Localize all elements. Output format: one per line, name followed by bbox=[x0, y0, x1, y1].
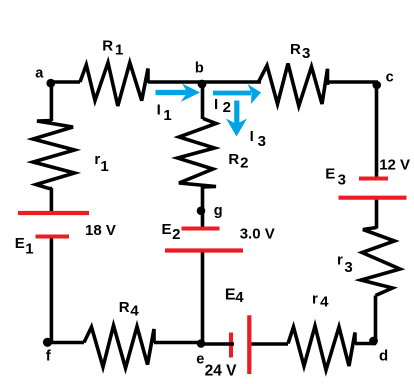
label g bbox=[214, 203, 223, 219]
svg-text:3.0 V: 3.0 V bbox=[240, 226, 275, 243]
svg-text:1: 1 bbox=[115, 42, 123, 59]
svg-text:3: 3 bbox=[338, 172, 346, 189]
wire R1 to b bbox=[148, 80, 204, 84]
label 24 V bbox=[205, 363, 238, 380]
wire b to R2 bbox=[201, 84, 205, 119]
svg-text:3: 3 bbox=[258, 133, 266, 150]
label I3 bbox=[250, 128, 266, 150]
svg-text:I: I bbox=[157, 101, 161, 118]
wire r1 to E1 bbox=[50, 188, 54, 211]
wire E1 to f bbox=[50, 239, 54, 343]
node b bbox=[198, 80, 207, 89]
label d bbox=[379, 348, 388, 365]
node c bbox=[373, 81, 382, 90]
wire R4 to e bbox=[154, 341, 201, 345]
label r1 bbox=[94, 151, 108, 175]
label 18 V bbox=[85, 222, 116, 239]
svg-text:E: E bbox=[162, 221, 172, 238]
label b bbox=[195, 61, 204, 77]
resistor R4 bbox=[84, 326, 154, 369]
node a bbox=[46, 79, 55, 88]
svg-text:R: R bbox=[290, 41, 301, 58]
label R1 bbox=[102, 37, 123, 58]
label R3 bbox=[290, 41, 310, 62]
wire f to R4 bbox=[47, 341, 84, 345]
svg-text:E: E bbox=[15, 235, 25, 252]
svg-text:E: E bbox=[225, 287, 236, 304]
svg-text:b: b bbox=[195, 61, 204, 77]
resistor R1 bbox=[80, 63, 148, 106]
svg-text:R: R bbox=[228, 151, 239, 168]
resistor r1 bbox=[33, 121, 75, 189]
wire r3 to d bbox=[374, 296, 378, 344]
label f bbox=[46, 347, 52, 364]
resistor R2 bbox=[178, 119, 217, 188]
svg-text:3: 3 bbox=[302, 45, 310, 62]
resistor r4 bbox=[288, 326, 355, 370]
label R4 bbox=[119, 299, 140, 320]
node e bbox=[197, 339, 206, 348]
current arrow I2 bbox=[213, 84, 261, 104]
svg-text:2: 2 bbox=[172, 226, 180, 243]
svg-text:a: a bbox=[35, 66, 44, 82]
label I2 bbox=[214, 96, 231, 116]
label r4 bbox=[312, 291, 329, 311]
svg-text:2: 2 bbox=[223, 99, 231, 116]
resistor R3 bbox=[259, 64, 328, 107]
label E4 bbox=[225, 287, 244, 307]
label R2 bbox=[228, 151, 248, 171]
svg-text:E: E bbox=[325, 166, 335, 183]
svg-text:g: g bbox=[214, 203, 223, 219]
wire E3 to r3 bbox=[375, 200, 379, 229]
wire a to R1 bbox=[50, 80, 80, 84]
svg-text:24 V: 24 V bbox=[205, 363, 238, 380]
label r3 bbox=[337, 252, 353, 276]
node d bbox=[369, 337, 378, 346]
wire d to r4 bbox=[355, 342, 376, 346]
current arrow I3 bbox=[226, 101, 247, 137]
wire E4 to r4 bbox=[252, 342, 289, 346]
svg-text:12 V: 12 V bbox=[379, 156, 410, 173]
svg-text:3: 3 bbox=[344, 259, 352, 276]
resistor r3 bbox=[361, 228, 400, 296]
svg-text:r: r bbox=[312, 291, 318, 308]
label E1 bbox=[15, 235, 34, 258]
svg-text:I: I bbox=[214, 96, 218, 113]
svg-text:r: r bbox=[337, 252, 343, 269]
svg-text:d: d bbox=[379, 348, 388, 365]
svg-text:1: 1 bbox=[25, 241, 33, 258]
battery E1 bbox=[18, 213, 89, 237]
wire c to E3 bbox=[375, 82, 379, 177]
wire g to E2 bbox=[201, 212, 205, 227]
svg-text:e: e bbox=[196, 352, 204, 368]
wire R3 to c bbox=[329, 80, 378, 84]
wire a to r1 bbox=[50, 82, 54, 121]
svg-text:R: R bbox=[119, 299, 130, 316]
label 3.0 V bbox=[240, 226, 275, 243]
node f bbox=[43, 338, 52, 347]
label E3 bbox=[325, 166, 346, 189]
svg-text:4: 4 bbox=[235, 289, 244, 306]
wire b to R3 bbox=[202, 80, 261, 84]
svg-text:18 V: 18 V bbox=[85, 222, 116, 239]
label 12 V bbox=[379, 156, 410, 173]
wire R2 to g bbox=[201, 186, 205, 212]
wire E2 to e bbox=[201, 253, 205, 344]
svg-text:4: 4 bbox=[320, 293, 329, 310]
svg-text:4: 4 bbox=[130, 303, 139, 320]
svg-text:c: c bbox=[386, 69, 394, 85]
svg-text:1: 1 bbox=[163, 107, 171, 124]
current arrow I1 bbox=[156, 84, 201, 103]
battery E4 bbox=[231, 315, 249, 374]
node g bbox=[197, 207, 206, 216]
label e bbox=[196, 352, 204, 368]
battery E2 bbox=[165, 229, 243, 251]
svg-text:1: 1 bbox=[100, 158, 108, 175]
label a bbox=[35, 66, 44, 82]
wire e to E4 bbox=[201, 342, 234, 346]
battery E3 bbox=[339, 179, 407, 198]
label E2 bbox=[162, 221, 181, 243]
label c bbox=[386, 69, 394, 85]
svg-text:R: R bbox=[102, 37, 113, 54]
svg-text:I: I bbox=[250, 128, 254, 145]
svg-text:2: 2 bbox=[240, 155, 248, 172]
label I1 bbox=[157, 101, 172, 123]
